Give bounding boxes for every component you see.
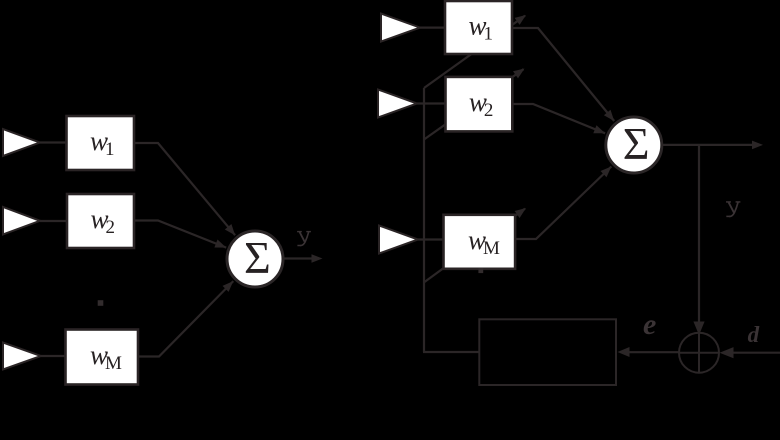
svg-text:1: 1 [484, 24, 494, 45]
svg-text:Σ: Σ [244, 232, 271, 283]
svg-text:1: 1 [105, 139, 115, 160]
svg-text:d: d [748, 322, 760, 347]
svg-text:e: e [643, 308, 656, 341]
svg-text:M: M [105, 353, 122, 374]
svg-text:2: 2 [484, 100, 494, 121]
svg-text:M: M [483, 238, 500, 259]
svg-text:Σ: Σ [623, 118, 650, 169]
svg-text:2: 2 [106, 217, 116, 238]
